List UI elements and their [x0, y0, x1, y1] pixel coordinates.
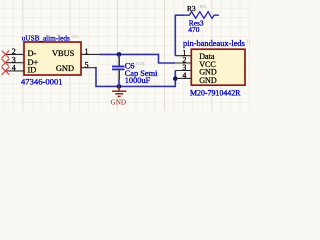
svg-text:(R3): (R3) — [198, 4, 207, 9]
capacitor C6 — [112, 54, 125, 86]
pin 1 VBUS — [52, 47, 100, 58]
pin 2 VCC — [175, 56, 216, 69]
svg-text:4: 4 — [182, 71, 186, 80]
svg-text:5: 5 — [85, 60, 89, 69]
svg-text:(J1): (J1) — [72, 34, 79, 39]
junction node GND pins 3-4 — [173, 76, 178, 81]
svg-text:M20-7910442R: M20-7910442R — [190, 88, 241, 97]
svg-text:uUSB_alim-leds: uUSB_alim-leds — [22, 35, 70, 43]
svg-text:470: 470 — [188, 25, 199, 34]
svg-text:(C6): (C6) — [136, 61, 145, 66]
svg-text:1000uF: 1000uF — [125, 76, 151, 85]
ground GND symbol — [112, 86, 126, 96]
pin 3 D+ — [5, 55, 39, 66]
pin 4 ID — [5, 64, 36, 75]
wire GND net: USB pin5 to rail to J2 pins 3-4 — [95, 68, 176, 87]
no-ERC marker pin3 — [2, 59, 10, 67]
pin 2 D- — [5, 47, 37, 58]
svg-text:47346-0001: 47346-0001 — [21, 77, 63, 87]
wire VBUS net: USB pin1 to C6 to J2 VCC — [100, 54, 176, 63]
svg-text:D-: D- — [28, 49, 37, 58]
svg-text:R3: R3 — [187, 4, 196, 13]
svg-text:VBUS: VBUS — [52, 49, 75, 58]
svg-text:1: 1 — [85, 47, 89, 56]
connector J uUSB alim-leds body — [24, 42, 81, 75]
junction node VBUS/C6 — [117, 52, 122, 57]
pin 4 GND — [175, 71, 217, 85]
pin 5 GND — [56, 60, 95, 73]
svg-text:(J2): (J2) — [247, 39, 250, 44]
connector pin-bandeaux-leds body — [191, 49, 245, 85]
wire Data net: J2 pin1 up to R3 — [175, 15, 183, 56]
svg-text:GND: GND — [199, 76, 217, 85]
no-ERC marker pin4 — [2, 67, 10, 75]
svg-text:4: 4 — [12, 64, 16, 73]
svg-text:ID: ID — [28, 66, 37, 75]
no-ERC marker pin2 — [2, 51, 10, 59]
pin 1 Data — [175, 48, 215, 61]
svg-text:pin-bandeaux-leds: pin-bandeaux-leds — [183, 39, 245, 48]
pin 3 GND — [175, 63, 217, 77]
junction node GND rail/C6 — [117, 84, 122, 89]
svg-text:GND: GND — [56, 64, 74, 73]
resistor R3 — [183, 12, 219, 19]
svg-text:GND: GND — [111, 98, 127, 106]
